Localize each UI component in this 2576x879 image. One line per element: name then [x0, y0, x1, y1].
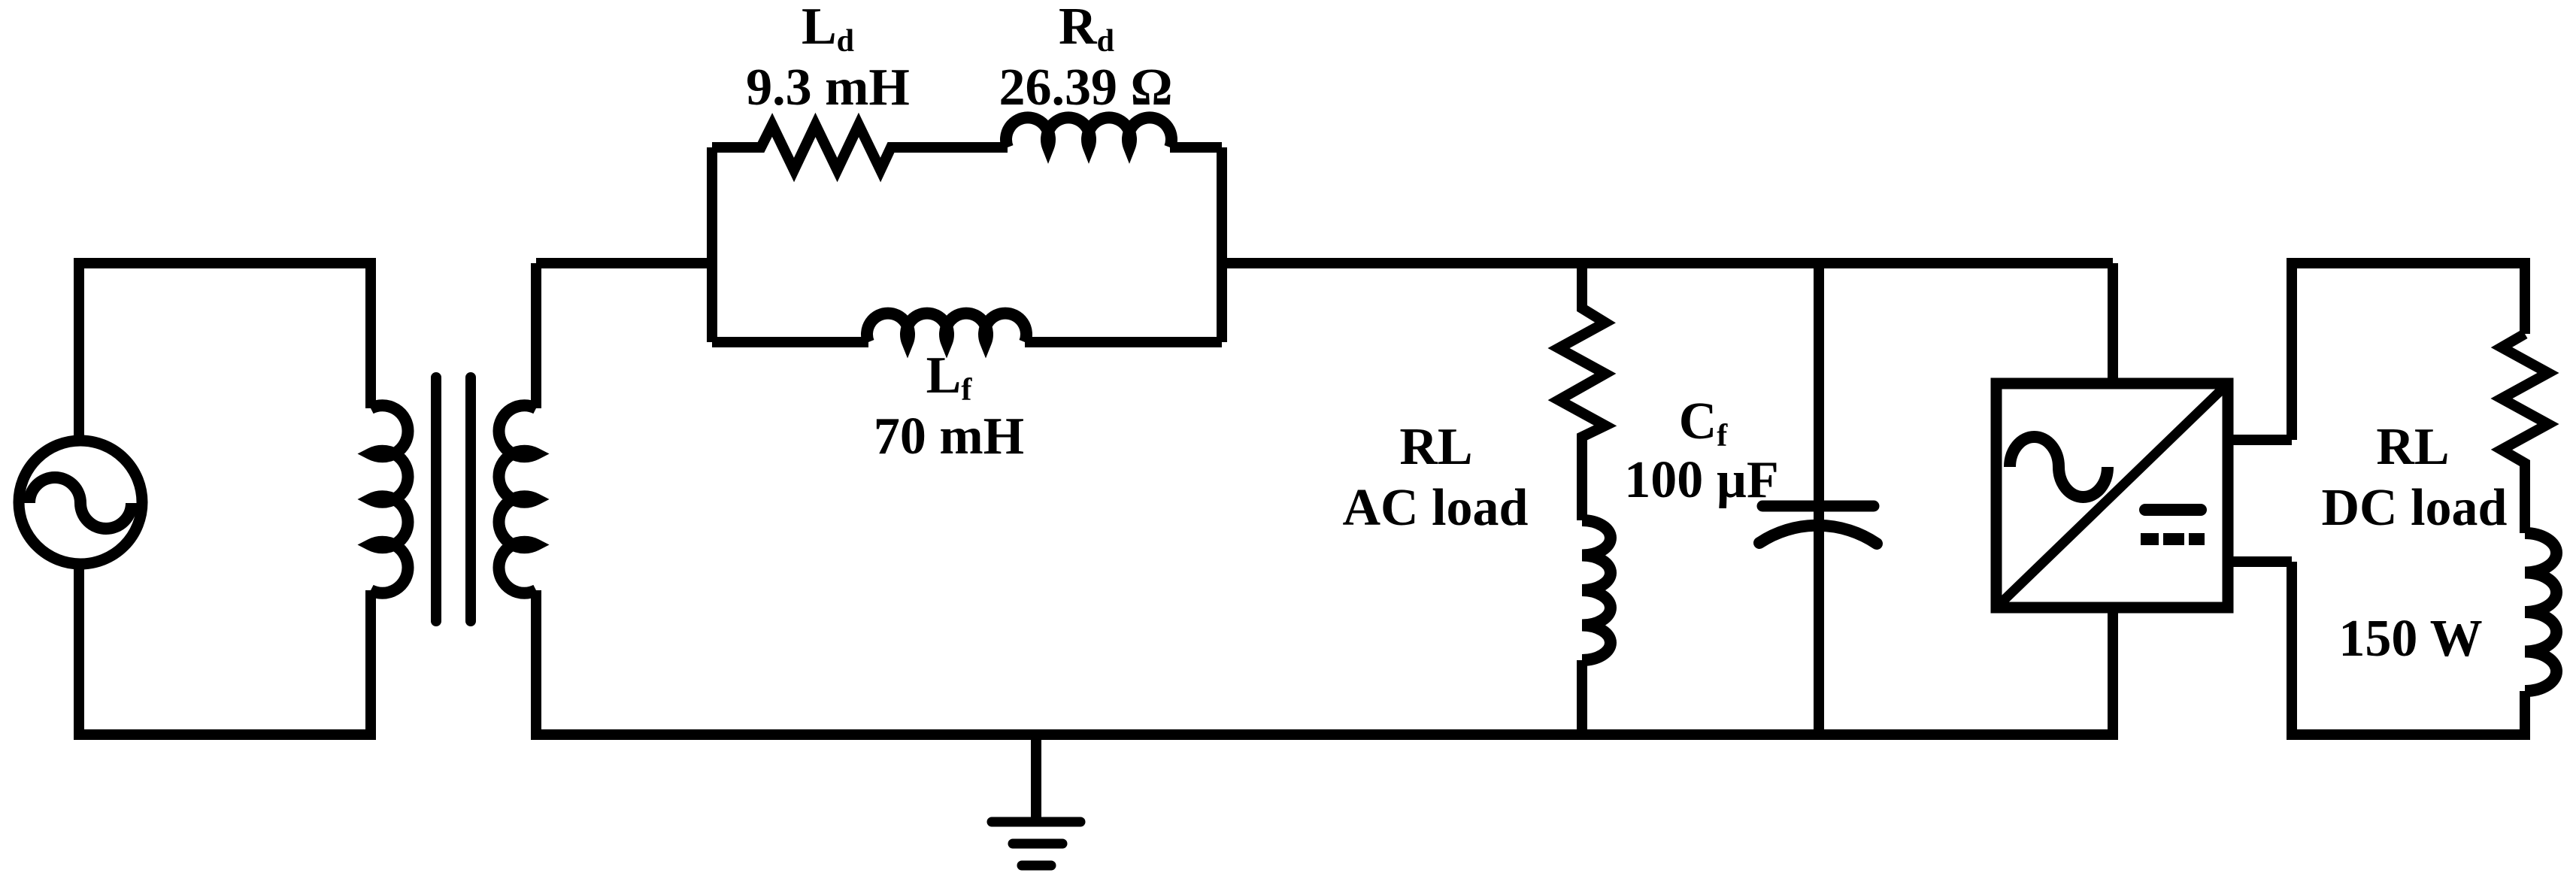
svg-text:Ld: Ld	[802, 0, 854, 59]
svg-text:Lf: Lf	[926, 347, 973, 408]
svg-text:9.3 mH: 9.3 mH	[746, 59, 910, 117]
svg-text:RL: RL	[2376, 418, 2449, 476]
svg-text:DC load: DC load	[2322, 479, 2508, 537]
svg-text:100 µF: 100 µF	[1624, 451, 1779, 509]
svg-text:70 mH: 70 mH	[874, 408, 1024, 465]
svg-text:Cf: Cf	[1679, 393, 1729, 453]
svg-text:RL: RL	[1399, 418, 1472, 476]
svg-text:Rd: Rd	[1059, 0, 1114, 59]
svg-text:AC load: AC load	[1343, 479, 1529, 537]
svg-text:26.39 Ω: 26.39 Ω	[999, 59, 1172, 117]
svg-text:150 W: 150 W	[2338, 610, 2482, 668]
